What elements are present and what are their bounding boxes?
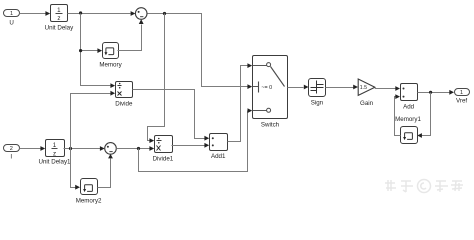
wire junction up to Divide and down to Memory2 [71, 91, 116, 190]
wire Divide1 output to Add1 [172, 143, 210, 148]
wire Switch to Sign [288, 85, 309, 90]
svg-text:1: 1 [10, 11, 13, 17]
svg-text:z: z [53, 150, 56, 157]
svg-text:Memory: Memory [99, 62, 122, 69]
sign block Sign [309, 79, 326, 107]
svg-text:1: 1 [460, 90, 463, 96]
wire Add1 output to Switch top input [228, 63, 253, 141]
svg-text:U: U [9, 20, 13, 27]
watermark zhihu [385, 180, 463, 193]
svg-text:1: 1 [57, 7, 61, 14]
svg-text:Divide: Divide [115, 101, 133, 108]
node junction on Unit Delay1 output [69, 147, 72, 150]
wire Sum1 output to Divide1 [116, 146, 154, 151]
sum block Sum1 (I) [105, 143, 117, 155]
wire Sum output to Switch middle input [148, 14, 253, 90]
divide block Divide [115, 82, 133, 108]
switch block Switch [253, 56, 288, 129]
wire Gain to Add [375, 86, 400, 91]
node junction on U delay output [79, 11, 82, 14]
wire U to Unit Delay [20, 11, 51, 16]
svg-text:Add: Add [403, 104, 415, 111]
wire Sum1 branch to Switch bottom input [139, 108, 253, 171]
svg-text:Switch: Switch [261, 121, 280, 128]
wire Unit Delay to Sum [68, 11, 136, 16]
svg-text:~= 0: ~= 0 [261, 85, 272, 91]
wire Memory2 to Sum1 bottom [98, 154, 113, 188]
svg-text:Sign: Sign [311, 99, 324, 106]
memory block Memory2 [76, 179, 102, 205]
svg-text:Memory1: Memory1 [395, 116, 421, 123]
svg-text:1.5: 1.5 [360, 85, 367, 91]
unit delay block Unit Delay1 [39, 140, 72, 166]
wire Add output down to Memory1 input (right side) [417, 93, 430, 138]
outport 1 Vref [455, 89, 470, 105]
wire Memory1 output to Add second input [395, 94, 401, 135]
add block Add1 [210, 134, 228, 161]
wire I to Unit Delay1 [20, 146, 46, 151]
svg-text:1: 1 [53, 142, 57, 149]
unit delay block Unit Delay [45, 5, 74, 32]
svg-text:z: z [57, 15, 60, 22]
inport 2 I [4, 145, 20, 161]
wire Memory to Sum bottom [118, 19, 144, 50]
wire Divide output to Add1 [133, 90, 210, 141]
wire Sign to Gain [326, 85, 359, 90]
svg-text:Unit Delay: Unit Delay [45, 24, 74, 31]
svg-text:Add1: Add1 [211, 153, 226, 160]
divide block Divide1 [153, 136, 174, 163]
gain block Gain 1.5 [358, 79, 375, 107]
svg-text:I: I [10, 153, 12, 160]
add block Add [401, 84, 418, 111]
memory block Memory1 (flipped) [395, 116, 421, 144]
svg-text:Divide1: Divide1 [153, 156, 174, 163]
svg-text:Memory2: Memory2 [76, 197, 102, 204]
inport 1 U [4, 10, 20, 27]
wire junction down to Memory and Divide [79, 14, 115, 89]
wire Add to Vref [418, 90, 455, 95]
wire Unit Delay1 to Sum1 [64, 146, 105, 151]
memory block Memory [99, 43, 122, 69]
svg-text:Unit Delay1: Unit Delay1 [39, 159, 72, 166]
svg-text:Vref: Vref [456, 98, 467, 105]
sum block Sum (U) [135, 8, 147, 20]
svg-text:2: 2 [10, 146, 13, 152]
node junction on Sum1 output [137, 147, 140, 150]
node junction on Sum output [163, 12, 166, 15]
wire Sum output down to Divide1 [148, 14, 165, 144]
node junction on Add output [429, 91, 432, 94]
svg-text:Gain: Gain [360, 100, 374, 107]
